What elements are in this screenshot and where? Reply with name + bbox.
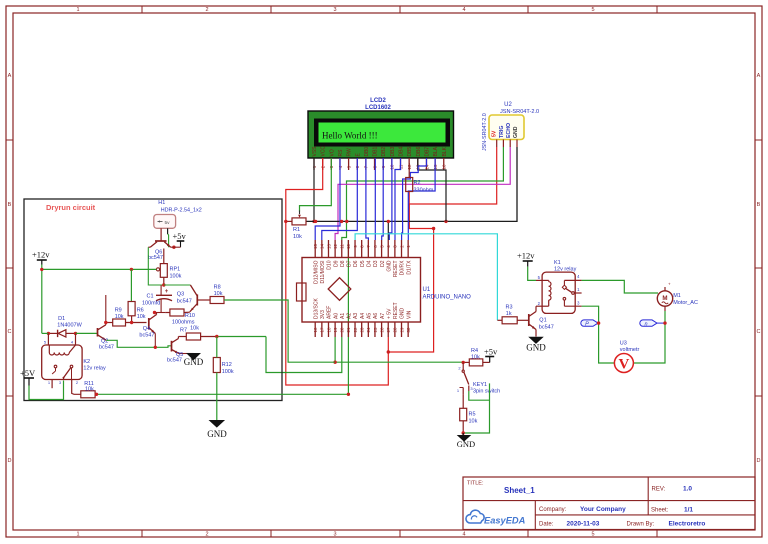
svg-text:A: A	[757, 73, 761, 79]
wire A1 green to R7 net	[266, 337, 342, 373]
svg-text:bc547: bc547	[148, 255, 163, 261]
wire R9 R6 Q4 base	[126, 322, 147, 324]
svg-text:3: 3	[333, 7, 336, 13]
svg-text:29: 29	[399, 327, 404, 332]
diode D1 1N4007W	[47, 330, 78, 337]
svg-text:+5v: +5v	[173, 231, 187, 241]
resistor R5 10k	[460, 408, 467, 421]
svg-text:bc547: bc547	[539, 325, 554, 331]
svg-text:2020-11-03: 2020-11-03	[567, 521, 600, 528]
wire GND bus drop to Arduino pin 4	[387, 221, 389, 240]
svg-text:R1: R1	[293, 227, 300, 233]
wire VCC red +5V	[286, 158, 389, 385]
svg-text:TRIG: TRIG	[499, 126, 505, 138]
svg-text:12v relay: 12v relay	[554, 267, 577, 273]
svg-text:R10: R10	[185, 313, 195, 319]
LCD pins 1-16	[312, 146, 448, 170]
svg-text:10k: 10k	[190, 326, 199, 332]
svg-text:10: 10	[346, 244, 351, 249]
svg-text:ECHO: ECHO	[506, 123, 512, 138]
svg-text:Q4: Q4	[143, 326, 150, 332]
svg-text:3: 3	[333, 532, 336, 538]
wire DB0 blue	[366, 158, 369, 240]
svg-text:KEY1: KEY1	[473, 382, 487, 388]
svg-text:27: 27	[386, 327, 391, 332]
svg-text:+5V: +5V	[20, 368, 36, 378]
svg-text:A7: A7	[380, 313, 386, 319]
svg-text:12v relay: 12v relay	[83, 366, 106, 372]
svg-text:Electroretro: Electroretro	[669, 521, 706, 528]
svg-text:D3: D3	[373, 260, 379, 267]
svg-text:bc547: bc547	[139, 333, 154, 339]
svg-text:D8: D8	[340, 260, 346, 267]
svg-text:Motor_AC: Motor_AC	[673, 300, 698, 306]
svg-text:B: B	[757, 202, 761, 208]
resistor R3 1k	[502, 317, 517, 324]
svg-text:25: 25	[373, 327, 378, 332]
wire A0 green to R4	[335, 337, 463, 362]
svg-text:10k: 10k	[471, 355, 480, 361]
bus junction dots	[340, 220, 343, 223]
svg-text:Sheet:: Sheet:	[651, 508, 669, 514]
transistor Q5 bc547	[172, 337, 194, 354]
wire Q2 collector	[105, 295, 107, 323]
svg-text:16: 16	[313, 327, 318, 332]
relay K1 12v relay	[536, 272, 582, 313]
svg-text:Q3: Q3	[177, 292, 184, 298]
svg-text:V: V	[618, 357, 629, 373]
U1 bottom pins 16-30	[313, 297, 412, 337]
wire K1 pin3 to voltmeter	[582, 306, 615, 363]
svg-text:DB6: DB6	[416, 147, 422, 157]
wire DB3 blue	[389, 158, 392, 240]
svg-text:A5: A5	[367, 313, 373, 319]
svg-text:LCD2: LCD2	[370, 98, 386, 104]
svg-text:D7: D7	[347, 260, 353, 267]
svg-text:21: 21	[346, 327, 351, 332]
svg-text:Sheet_1: Sheet_1	[504, 486, 535, 495]
power +12v right	[523, 260, 533, 262]
svg-text:D1/TX: D1/TX	[406, 260, 412, 275]
svg-text:10k: 10k	[293, 234, 302, 240]
svg-text:bc547: bc547	[167, 358, 182, 364]
svg-text:14: 14	[320, 244, 325, 249]
wire K1 pin4 to motor	[582, 280, 658, 293]
svg-text:Hello World !!!: Hello World !!!	[322, 131, 378, 141]
transistor Q4 bc547	[149, 313, 157, 348]
svg-text:30: 30	[406, 327, 411, 332]
wire cyan D6 to R3	[355, 234, 497, 320]
svg-text:ARDUINO_NANO: ARDUINO_NANO	[423, 295, 472, 301]
wire U2 5V	[409, 147, 497, 204]
svg-text:GND: GND	[386, 260, 392, 272]
svg-text:R12: R12	[222, 362, 232, 368]
svg-text:R5: R5	[469, 412, 476, 418]
svg-text:23: 23	[359, 327, 364, 332]
svg-text:GND: GND	[400, 308, 406, 320]
svg-text:bc547: bc547	[177, 299, 192, 305]
svg-text:D1: D1	[58, 316, 65, 322]
svg-text:10k: 10k	[85, 386, 94, 392]
resistor R12 100k	[213, 358, 220, 373]
svg-text:11: 11	[340, 244, 345, 249]
wire DB1 blue	[374, 158, 376, 240]
svg-text:330ohm: 330ohm	[414, 188, 434, 194]
svg-text:2: 2	[205, 532, 208, 538]
svg-text:+5v: +5v	[484, 347, 498, 357]
svg-text:28: 28	[393, 327, 398, 332]
svg-text:GND: GND	[184, 357, 204, 367]
svg-text:P: P	[585, 322, 589, 328]
svg-text:D: D	[8, 458, 12, 464]
svg-text:D11/MOSI: D11/MOSI	[320, 261, 326, 284]
svg-text:R9: R9	[115, 308, 122, 314]
svg-text:RS: RS	[338, 149, 344, 157]
svg-text:17: 17	[320, 327, 325, 332]
svg-text:D: D	[757, 458, 761, 464]
svg-text:RW: RW	[347, 148, 353, 157]
ground below Q1	[530, 337, 543, 343]
svg-text:GND: GND	[207, 429, 227, 439]
svg-text:R7: R7	[180, 328, 187, 334]
svg-text:D12/MISO: D12/MISO	[313, 260, 319, 283]
svg-text:U1: U1	[423, 287, 431, 293]
Arduino Nano U1 body	[302, 258, 421, 323]
svg-text:1: 1	[76, 532, 79, 538]
svg-text:C: C	[8, 329, 12, 335]
resistor R9 10k	[113, 319, 126, 326]
potentiometer R1 10k	[292, 218, 306, 225]
wire BLA blue	[408, 158, 435, 240]
svg-text:AREF: AREF	[327, 306, 333, 319]
net flag P	[581, 320, 601, 328]
svg-text:GND: GND	[513, 126, 519, 138]
svg-text:voltmetr: voltmetr	[620, 347, 640, 353]
motor M1 Motor_AC	[657, 282, 672, 312]
wire H1 pin2 green	[168, 234, 169, 247]
svg-text:A2: A2	[347, 313, 353, 319]
svg-text:DB7: DB7	[424, 147, 430, 157]
svg-text:D10: D10	[327, 260, 333, 269]
transistor Q1 bc547	[517, 306, 536, 336]
svg-text:D13/SCK: D13/SCK	[313, 297, 319, 319]
svg-text:R3: R3	[506, 305, 513, 311]
svg-text:18: 18	[326, 327, 331, 332]
title block	[463, 477, 755, 530]
svg-text:1.0: 1.0	[683, 486, 692, 493]
transistor Q2 bc547	[98, 323, 107, 341]
svg-text:R2: R2	[414, 180, 421, 186]
wire BLK black	[418, 158, 446, 221]
wire VSS to GND bus	[313, 158, 315, 221]
header H1 HDR-P-2.54_1x2	[154, 215, 176, 235]
svg-text:1: 1	[76, 7, 79, 13]
wire D7 green through body to R11 net	[347, 240, 349, 394]
svg-text:Dryrun circuit: Dryrun circuit	[46, 203, 96, 212]
svg-text:BLA: BLA	[433, 146, 439, 156]
svg-text:100mfd: 100mfd	[142, 301, 160, 307]
svg-text:RESET: RESET	[393, 261, 399, 278]
svg-text:100k: 100k	[170, 274, 182, 280]
svg-text:C: C	[757, 329, 761, 335]
wire ECHO magenta	[335, 147, 510, 240]
svg-text:1/1: 1/1	[684, 507, 693, 514]
dryrun circuit box	[24, 199, 282, 401]
svg-text:TITLE:: TITLE:	[467, 481, 484, 487]
svg-text:A6: A6	[373, 313, 379, 319]
svg-text:A3: A3	[353, 313, 359, 319]
svg-text:15: 15	[313, 244, 318, 249]
svg-text:D6: D6	[353, 260, 359, 267]
svg-text:GND: GND	[526, 343, 546, 353]
wire R11 to A2 green	[95, 393, 348, 395]
wire +12v to K1	[528, 267, 536, 281]
svg-text:DB5: DB5	[407, 147, 413, 157]
svg-text:2: 2	[205, 7, 208, 13]
resistor R7 10k	[186, 333, 200, 340]
svg-text:+12v: +12v	[517, 251, 535, 261]
svg-text:3pin switch: 3pin switch	[473, 389, 500, 395]
wire +5V to K2 green	[29, 381, 64, 400]
svg-text:K1: K1	[554, 260, 561, 266]
svg-text:Company:: Company:	[539, 507, 567, 513]
svg-text:REV:: REV:	[652, 487, 666, 493]
svg-text:VIN: VIN	[406, 310, 412, 319]
wire R7 node green	[217, 336, 266, 338]
wire K2 to R11	[72, 380, 81, 395]
svg-text:D5: D5	[360, 260, 366, 267]
svg-text:5: 5	[591, 7, 594, 13]
svg-text:DB0: DB0	[364, 147, 370, 157]
svg-text:10k: 10k	[115, 314, 124, 320]
wire DB7 blue ladder	[402, 158, 427, 240]
wire R6 top green	[130, 269, 132, 301]
svg-text:VO: VO	[329, 149, 335, 156]
svg-text:22: 22	[353, 327, 358, 332]
svg-text:RP1: RP1	[170, 267, 181, 273]
power +12v left	[37, 259, 47, 261]
power +5v at R4	[489, 357, 491, 363]
wire R12 to GND	[216, 373, 218, 421]
svg-text:C1: C1	[147, 294, 154, 300]
svg-text:A0: A0	[333, 313, 339, 319]
svg-text:4: 4	[462, 532, 465, 538]
svg-text:1k: 1k	[506, 311, 512, 317]
svg-text:10k: 10k	[214, 291, 223, 297]
svg-text:BLK: BLK	[442, 146, 448, 156]
svg-text:RESET: RESET	[393, 302, 399, 319]
resistor R11 10k	[81, 391, 95, 398]
U1 chip diamond	[328, 278, 351, 301]
svg-text:Q1: Q1	[539, 318, 546, 324]
wire Q6 collector green	[148, 247, 164, 285]
wire U2 GND black	[306, 147, 517, 221]
svg-text:M1: M1	[673, 293, 681, 299]
svg-text:VCC: VCC	[321, 146, 327, 157]
wire +5V branch to U2	[388, 192, 433, 353]
svg-text:A1: A1	[340, 313, 346, 319]
net flag n	[640, 320, 667, 328]
svg-text:1N4007W: 1N4007W	[57, 323, 82, 329]
svg-text:DB4: DB4	[399, 147, 405, 157]
U1 usb rect	[297, 283, 307, 301]
switch KEY1 3pin	[457, 362, 474, 394]
svg-text:10k: 10k	[137, 314, 146, 320]
svg-text:20: 20	[340, 327, 345, 332]
svg-text:D2: D2	[380, 260, 386, 267]
svg-text:JSN-SR04T-2.0: JSN-SR04T-2.0	[500, 109, 539, 115]
svg-text:U2: U2	[504, 102, 512, 108]
capacitor C1 100mfd	[156, 285, 172, 313]
wire TRIG green	[342, 147, 504, 240]
svg-text:Date:: Date:	[539, 522, 554, 528]
LCD display LCD2 LCD1602	[308, 111, 454, 158]
svg-text:+: +	[668, 282, 671, 287]
svg-text:26: 26	[379, 327, 384, 332]
svg-text:DB2: DB2	[381, 147, 387, 157]
svg-text:H1: H1	[158, 200, 165, 206]
svg-text:D9: D9	[333, 260, 339, 267]
svg-text:LCD1602: LCD1602	[365, 105, 391, 111]
svg-text:+ 5V: + 5V	[386, 308, 392, 319]
transistor Q6 bc547	[148, 228, 180, 247]
resistor R8 10k	[210, 297, 224, 304]
EasyEDA logo	[466, 510, 526, 525]
power +5v at Q6	[177, 240, 185, 242]
wire +12v rail	[41, 265, 43, 334]
svg-text:12: 12	[333, 244, 338, 249]
wire Q2 emitter to Q5 base green	[106, 340, 171, 347]
wire motor to voltmeter	[634, 311, 666, 363]
svg-text:B: B	[8, 202, 12, 208]
svg-text:13: 13	[326, 244, 331, 249]
svg-text:Your Company: Your Company	[580, 506, 626, 513]
resistor R2 330ohm	[406, 178, 413, 192]
wire Q6 emitter to RP1	[163, 249, 165, 264]
svg-text:100k: 100k	[222, 369, 234, 375]
wire DB4 blue	[395, 158, 401, 240]
svg-text:D0/RX: D0/RX	[400, 260, 406, 275]
svg-text:HDR-P-2.54_1x2: HDR-P-2.54_1x2	[161, 208, 202, 214]
svg-text:10k: 10k	[469, 419, 478, 425]
wire C1 R10 Q4 node	[154, 312, 165, 314]
wire KEY1 green loop	[469, 391, 490, 400]
resistor R4 10k	[469, 359, 483, 366]
svg-text:R8: R8	[214, 285, 221, 291]
svg-text:DB1: DB1	[373, 147, 379, 157]
svg-text:5v: 5v	[165, 220, 171, 226]
svg-text:R6: R6	[137, 308, 144, 314]
svg-text:D4: D4	[367, 260, 373, 267]
svg-text:A4: A4	[360, 313, 366, 319]
svg-text:+: +	[165, 289, 169, 295]
svg-text:DB3: DB3	[390, 147, 396, 157]
svg-text:VSS: VSS	[312, 146, 318, 157]
svg-text:U3: U3	[620, 341, 627, 347]
svg-text:4: 4	[462, 7, 465, 13]
wire +12v to D1 Q2	[42, 332, 49, 334]
U1 top pins 15-1	[313, 240, 412, 284]
svg-text:GND: GND	[457, 439, 475, 449]
svg-text:M: M	[662, 295, 667, 302]
ground below R5	[462, 433, 464, 435]
svg-text:K2: K2	[83, 359, 90, 365]
wire VO green to R1 wiper	[300, 158, 332, 212]
svg-text:16: 16	[442, 164, 447, 169]
wire RP1 bottom node	[163, 277, 165, 285]
svg-text:+12v: +12v	[32, 250, 50, 260]
transistor Q3 bc547	[190, 285, 206, 312]
svg-text:Drawn By:: Drawn By:	[627, 522, 655, 528]
ultrasonic module U2 JSN-SR04T-2.0	[489, 115, 524, 147]
wire RS blue	[315, 158, 340, 240]
wire DB2 blue	[382, 158, 384, 240]
svg-text:JSN-SR04T-2.0: JSN-SR04T-2.0	[482, 113, 488, 151]
resistor R6 10k vertical	[128, 302, 135, 316]
voltmeter U3	[614, 354, 633, 373]
ground at Q5	[187, 354, 200, 360]
svg-text:19: 19	[333, 327, 338, 332]
resistor R10 100ohms	[170, 309, 184, 316]
wire R8 to R4 net green	[224, 300, 335, 362]
svg-text:bc547: bc547	[99, 345, 114, 351]
relay K2 12v relay	[42, 333, 82, 388]
svg-text:24: 24	[366, 327, 371, 332]
ground below box	[210, 421, 224, 428]
wire E blue	[322, 158, 358, 240]
svg-text:n: n	[644, 322, 647, 328]
potentiometer RP1 100k	[156, 264, 167, 278]
svg-text:R4: R4	[471, 348, 478, 354]
svg-text:EasyEDA: EasyEDA	[484, 516, 526, 526]
svg-text:5V: 5V	[492, 130, 498, 137]
svg-text:3V3: 3V3	[320, 310, 326, 319]
svg-text:5: 5	[591, 532, 594, 538]
svg-text:A: A	[8, 73, 12, 79]
